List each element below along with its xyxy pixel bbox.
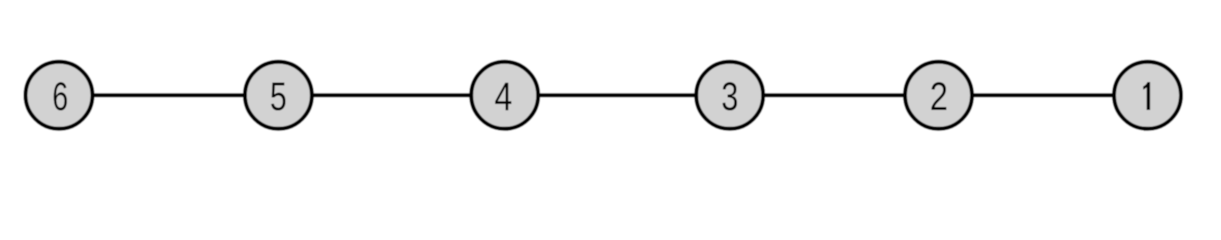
- svg-text:2: 2: [930, 74, 948, 119]
- node 2: [905, 62, 972, 129]
- svg-text:3: 3: [721, 74, 738, 119]
- node 4: [471, 62, 538, 129]
- svg-text:5: 5: [270, 75, 287, 119]
- node 5: [245, 62, 312, 129]
- node 1: [1114, 62, 1181, 129]
- node 3: [696, 62, 763, 129]
- node 6: [26, 62, 93, 129]
- edge 2-1: [939, 93, 1148, 97]
- edge 6-5: [59, 93, 278, 97]
- edge 5-4: [278, 93, 504, 97]
- edge 4-3: [505, 93, 730, 97]
- svg-text:6: 6: [52, 76, 68, 120]
- svg-text:4: 4: [494, 74, 512, 119]
- edge 3-2: [730, 93, 939, 97]
